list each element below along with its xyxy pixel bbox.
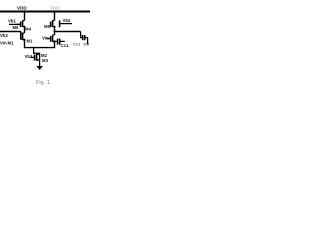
svg-text:Vb1: Vb1	[8, 19, 16, 24]
svg-text:CL2: CL2	[73, 42, 81, 47]
wire left column mid	[24, 27, 26, 33]
svg-text:Vb3: Vb3	[25, 54, 33, 59]
wire right column mid	[54, 27, 56, 35]
svg-text:Vb2: Vb2	[0, 33, 8, 38]
svg-text:M1: M1	[8, 40, 15, 45]
transistor M2 (lower right, Vin gate)	[47, 35, 55, 42]
junction node dots	[24, 26, 56, 43]
svg-text:M6: M6	[13, 25, 20, 30]
svg-text:M3: M3	[42, 58, 49, 63]
wire right column upper	[54, 12, 56, 21]
svg-text:Vin: Vin	[42, 35, 49, 40]
transistor M5 (upper right)	[51, 20, 55, 27]
transistor M1 (lower left, gate wire)	[0, 32, 25, 41]
capacitor Cc1	[55, 39, 65, 45]
svg-text:Vin: Vin	[0, 40, 7, 45]
wire right column lower L	[34, 41, 55, 47]
transistor M4 (upper left, Vb1 gate)	[9, 20, 25, 27]
svg-text:VDD: VDD	[17, 5, 27, 10]
svg-text:M5: M5	[44, 24, 51, 29]
wire Cc2 drop	[81, 32, 83, 38]
svg-text:M4: M4	[25, 27, 32, 32]
wire tail node drop	[34, 48, 40, 61]
transistor M3 (tail, Vb3 gate)	[30, 54, 39, 61]
wire CL2 drop	[87, 38, 89, 44]
ground	[36, 66, 43, 70]
wire left column upper	[24, 12, 26, 21]
svg-text:Fig. 1.: Fig. 1.	[36, 80, 52, 86]
VDD rail	[0, 11, 90, 13]
node wire to Cc2 branch	[55, 31, 81, 33]
svg-text:M2: M2	[41, 53, 48, 58]
wire to ground	[39, 60, 41, 66]
svg-text:Vb2: Vb2	[63, 18, 71, 23]
Vb2 bias bar and stub	[60, 20, 72, 27]
svg-text:M1: M1	[27, 39, 34, 44]
svg-text:Cc1: Cc1	[61, 43, 69, 48]
arrows	[17, 23, 55, 61]
wire left column lower L to tail node	[25, 40, 34, 48]
svg-text:VDD: VDD	[50, 5, 60, 10]
svg-text:M8: M8	[84, 42, 90, 47]
capacitor Cc2	[83, 35, 88, 40]
